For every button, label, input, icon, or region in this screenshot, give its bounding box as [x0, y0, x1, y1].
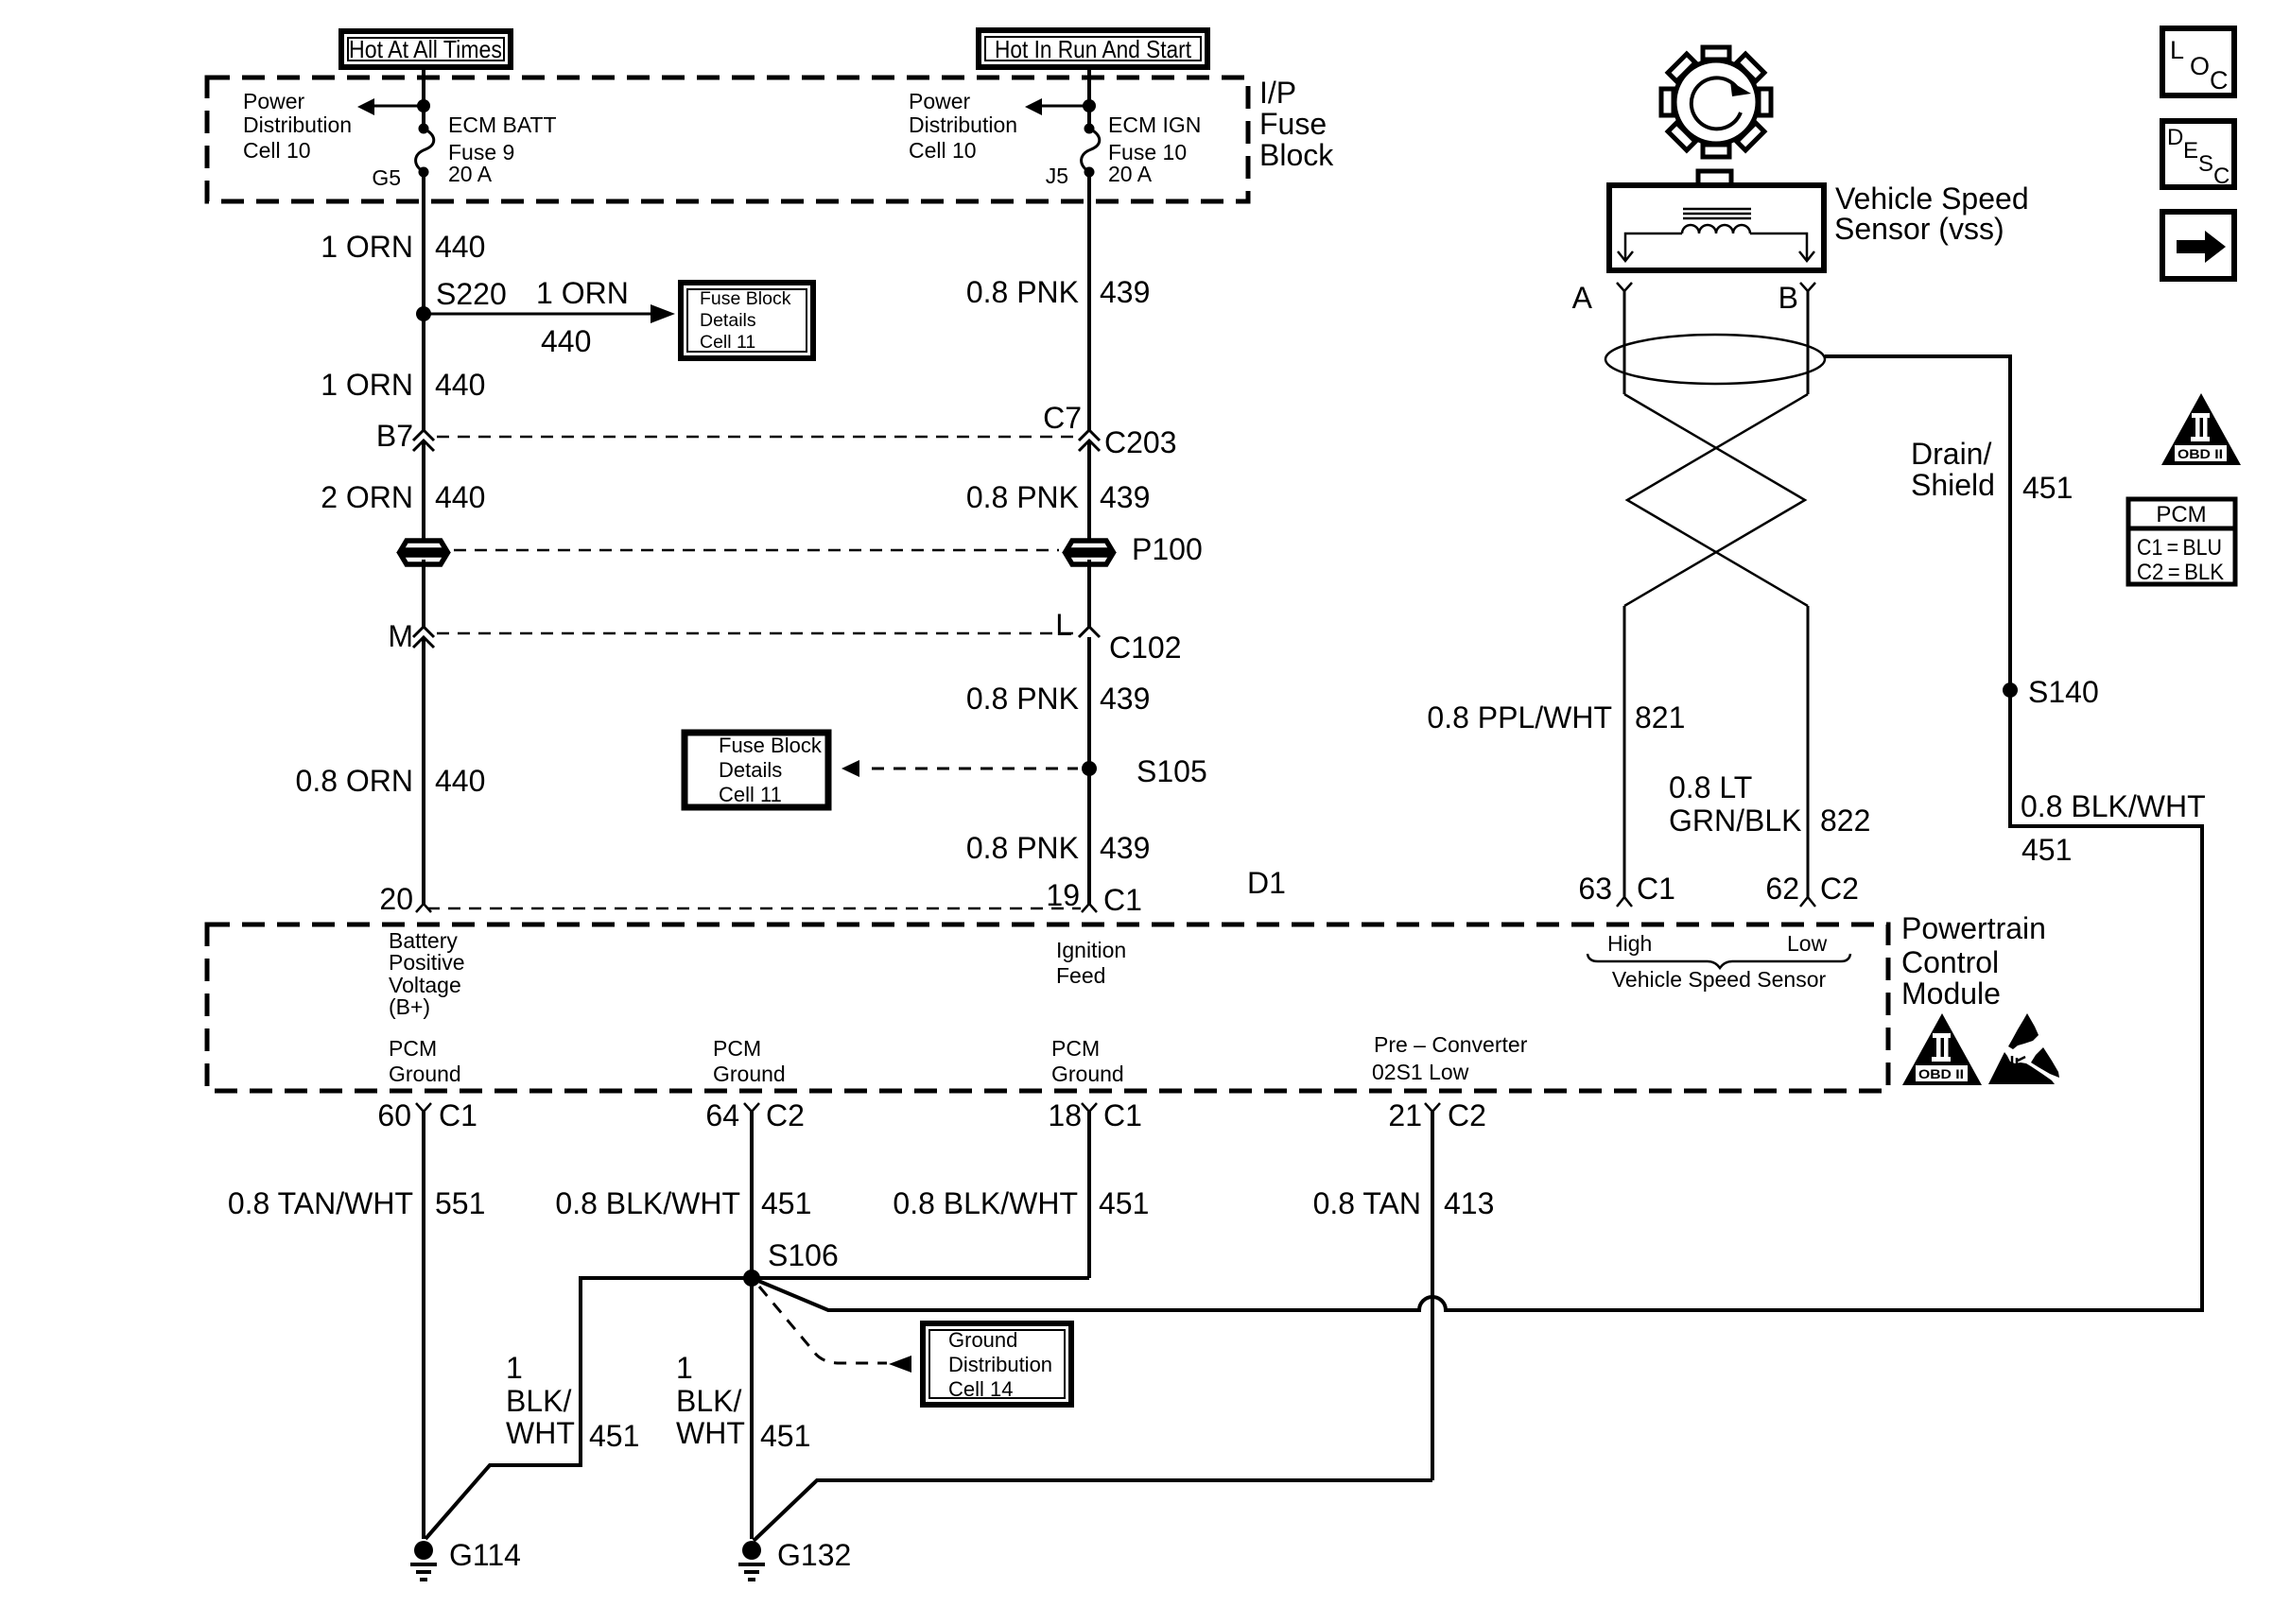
- splice S106: [743, 1270, 760, 1287]
- svg-text:C2 = BLK: C2 = BLK: [2137, 560, 2224, 585]
- svg-text:Distribution: Distribution: [243, 112, 352, 137]
- svg-text:Low: Low: [1787, 931, 1828, 956]
- text ECM IGN Fuse 10 20 A: [1108, 112, 1201, 186]
- svg-text:L: L: [1055, 608, 1072, 642]
- detail box Fuse Block Details Cell 11 (near S105): [685, 733, 828, 807]
- label box "Hot At All Times": [341, 31, 511, 67]
- label 0.8 TAN/WHT 551: [228, 1186, 486, 1220]
- svg-text:(B+): (B+): [389, 994, 430, 1019]
- wire TAN 413 turn to G132: [754, 1480, 1432, 1541]
- svg-text:0.8 BLK/WHT: 0.8 BLK/WHT: [893, 1186, 1078, 1220]
- wire pin 64 through S106 to ground G132: [750, 1112, 754, 1539]
- VSS interior wires with down arrows: [1618, 233, 1814, 261]
- text PCM Ground (2): [713, 1036, 786, 1086]
- connector arrow below B7: [413, 441, 434, 544]
- svg-text:451: 451: [2022, 471, 2073, 505]
- svg-text:Cell 10: Cell 10: [243, 138, 311, 163]
- svg-text:18: 18: [1048, 1098, 1082, 1132]
- svg-text:60: 60: [377, 1098, 411, 1132]
- svg-text:S220: S220: [436, 277, 507, 311]
- svg-text:C1: C1: [1103, 1098, 1142, 1132]
- detail box Ground Distribution Cell 14: [923, 1323, 1071, 1405]
- svg-text:S: S: [2198, 151, 2213, 177]
- svg-text:BLK/: BLK/: [676, 1384, 741, 1418]
- wire pin 18 down to S106 level: [1087, 1112, 1091, 1278]
- junction dot right power distribution: [1083, 99, 1096, 112]
- splice S105: [1082, 761, 1097, 776]
- svg-text:Ground: Ground: [713, 1062, 786, 1086]
- svg-text:Pre – Converter: Pre – Converter: [1374, 1032, 1528, 1057]
- I/P fuse block dashed box: [207, 78, 1248, 201]
- pin 63 C1 fork: [1578, 872, 1675, 907]
- svg-text:Ground: Ground: [389, 1062, 461, 1086]
- svg-text:62: 62: [1765, 872, 1799, 906]
- icon box forward arrow: [2162, 212, 2234, 279]
- VSS coil: [1682, 225, 1750, 233]
- svg-text:440: 440: [435, 368, 485, 402]
- wire S106 diagonal branch to drain shield (with hop over TAN wire): [752, 356, 2202, 1310]
- label 0.8 BLK/WHT 451 (left): [555, 1186, 811, 1220]
- svg-text:64: 64: [705, 1098, 739, 1132]
- wire pin 21 down (0.8 TAN 413): [1431, 1112, 1434, 1480]
- text PCM Ground (3): [1051, 1036, 1124, 1086]
- svg-text:451: 451: [589, 1419, 639, 1453]
- svg-text:Sensor (vss): Sensor (vss): [1834, 212, 2004, 246]
- wire from Hot At All Times into fuse G5: [422, 67, 425, 129]
- label 0.8 TAN 413: [1313, 1186, 1495, 1220]
- svg-text:1 ORN: 1 ORN: [321, 230, 413, 264]
- svg-text:0.8 PNK: 0.8 PNK: [966, 682, 1079, 716]
- svg-text:WHT: WHT: [676, 1416, 745, 1450]
- pin 21 C2: [1388, 1098, 1486, 1132]
- svg-text:J5: J5: [1046, 164, 1068, 188]
- svg-text:C: C: [2213, 164, 2230, 189]
- svg-text:C: C: [2210, 66, 2229, 95]
- svg-text:S106: S106: [768, 1238, 839, 1272]
- label Powertrain Control Module: [1901, 911, 2046, 1011]
- wire from pin 18 to splice S106: [752, 1276, 1089, 1280]
- svg-text:451: 451: [2021, 833, 2072, 867]
- svg-text:0.8 PNK: 0.8 PNK: [966, 275, 1079, 309]
- PCM dashed box: [207, 924, 1888, 1091]
- svg-text:D1: D1: [1247, 866, 1286, 900]
- wire VSS A to pin 63: [1623, 606, 1626, 897]
- text Battery Positive Voltage (B+): [389, 928, 465, 1019]
- PCM connector legend box: [2128, 499, 2235, 585]
- svg-text:Distribution: Distribution: [948, 1353, 1052, 1376]
- svg-text:821: 821: [1635, 700, 1685, 734]
- label 0.8 PPL/WHT 821: [1427, 700, 1685, 734]
- svg-text:G132: G132: [777, 1538, 851, 1572]
- svg-text:Ground: Ground: [948, 1328, 1017, 1352]
- text Ignition Feed: [1056, 938, 1126, 988]
- wire pin 60 to ground G114: [422, 1112, 425, 1539]
- svg-text:C203: C203: [1104, 425, 1177, 459]
- svg-text:PCM: PCM: [2156, 502, 2206, 527]
- pin 60 C1: [377, 1098, 477, 1132]
- svg-text:E: E: [2183, 138, 2198, 164]
- svg-text:440: 440: [435, 480, 485, 514]
- svg-text:Cell 11: Cell 11: [700, 332, 755, 353]
- svg-text:0.8 PNK: 0.8 PNK: [966, 831, 1079, 865]
- wire L to S105 to pin 19: [1087, 637, 1091, 905]
- svg-text:High: High: [1607, 931, 1652, 956]
- connector arrow below C7: [1079, 441, 1100, 544]
- svg-text:Vehicle Speed Sensor: Vehicle Speed Sensor: [1612, 967, 1827, 992]
- label 0.8 ORN 440: [296, 764, 486, 798]
- connector dashed line M to L: [437, 632, 1078, 635]
- svg-text:Positive: Positive: [389, 950, 465, 975]
- wire fuse G5 down out of fuse box: [422, 172, 425, 312]
- svg-text:439: 439: [1100, 480, 1150, 514]
- svg-text:O: O: [2190, 52, 2210, 80]
- label 2 ORN 440: [321, 480, 485, 514]
- svg-text:451: 451: [1099, 1186, 1149, 1220]
- svg-text:440: 440: [541, 324, 591, 358]
- brace under High/Low: [1588, 954, 1850, 968]
- svg-text:C2: C2: [1448, 1098, 1486, 1132]
- detail box Fuse Block Details Cell 11 (top): [681, 283, 813, 358]
- svg-text:Drain/: Drain/: [1911, 437, 1991, 471]
- svg-text:2 ORN: 2 ORN: [321, 480, 413, 514]
- label 1 BLK/WHT 451 (left branch): [506, 1351, 639, 1453]
- svg-text:WHT: WHT: [506, 1416, 575, 1450]
- wire VSS B to pin 62: [1807, 606, 1810, 897]
- ground G132: [738, 1541, 765, 1580]
- svg-text:02S1 Low: 02S1 Low: [1372, 1060, 1469, 1084]
- svg-text:0.8 BLK/WHT: 0.8 BLK/WHT: [555, 1186, 740, 1220]
- svg-text:Hot In Run And Start: Hot In Run And Start: [995, 35, 1192, 63]
- svg-text:C7: C7: [1043, 401, 1082, 435]
- svg-text:C1: C1: [1103, 883, 1142, 917]
- label 1 ORN 440 (second): [321, 368, 485, 402]
- shield ellipse: [1605, 335, 1825, 384]
- svg-text:20 A: 20 A: [448, 162, 493, 186]
- connector dashed line P100: [454, 549, 1059, 552]
- svg-text:PCM: PCM: [1051, 1036, 1100, 1061]
- svg-text:1: 1: [676, 1351, 693, 1385]
- svg-text:B: B: [1778, 281, 1798, 315]
- svg-text:Module: Module: [1901, 976, 2001, 1011]
- svg-text:451: 451: [761, 1186, 811, 1220]
- svg-text:Cell 14: Cell 14: [948, 1377, 1013, 1401]
- svg-text:Fuse Block: Fuse Block: [700, 288, 791, 309]
- OBD II triangle inside PCM: [1902, 1013, 1982, 1085]
- svg-text:G114: G114: [449, 1538, 521, 1572]
- svg-text:Block: Block: [1259, 138, 1334, 172]
- svg-text:20 A: 20 A: [1108, 162, 1153, 186]
- svg-text:Fuse: Fuse: [1259, 107, 1327, 141]
- text Pre-Converter 02S1 Low: [1372, 1032, 1528, 1084]
- svg-text:1 ORN: 1 ORN: [321, 368, 413, 402]
- svg-text:M: M: [388, 619, 413, 653]
- wire from Hot In Run And Start into fuse J5: [1087, 67, 1091, 129]
- svg-text:OBD II: OBD II: [1918, 1066, 1964, 1081]
- VSS core lines: [1683, 209, 1751, 218]
- wire S220 to connector B7: [422, 314, 425, 431]
- VSS sensor box: [1609, 171, 1824, 270]
- label 1 BLK/WHT 451 (G132 wire): [676, 1351, 810, 1453]
- twisted pair crossing: [1624, 394, 1808, 606]
- svg-text:Cell 11: Cell 11: [719, 783, 782, 806]
- svg-text:0.8 ORN: 0.8 ORN: [296, 764, 413, 798]
- pin 62 C2 fork: [1765, 872, 1859, 907]
- svg-text:1: 1: [506, 1351, 523, 1385]
- wire PNK fuse J5 to C7: [1087, 172, 1091, 431]
- splice S220: [416, 306, 431, 321]
- dashed arrow S106 to Ground Distribution: [759, 1287, 911, 1373]
- svg-text:0.8 LT: 0.8 LT: [1669, 770, 1752, 804]
- splice S140: [2003, 682, 2018, 698]
- svg-text:Hot At All Times: Hot At All Times: [349, 35, 502, 63]
- svg-text:440: 440: [435, 764, 485, 798]
- svg-text:63: 63: [1578, 872, 1612, 906]
- svg-text:GRN/BLK: GRN/BLK: [1669, 803, 1801, 838]
- svg-text:439: 439: [1100, 682, 1150, 716]
- svg-text:Ground: Ground: [1051, 1062, 1124, 1086]
- svg-text:1 ORN: 1 ORN: [536, 276, 629, 310]
- svg-text:Fuse Block: Fuse Block: [719, 734, 823, 757]
- svg-text:551: 551: [435, 1186, 485, 1220]
- icon box LOC: [2162, 28, 2234, 95]
- reluctor gear icon: [1639, 25, 1794, 180]
- icon box DESC: [2162, 121, 2234, 189]
- arrow to Power Distribution (left): [357, 98, 424, 115]
- connector half M (chevron): [413, 627, 434, 637]
- svg-text:P100: P100: [1132, 532, 1203, 566]
- svg-text:C2: C2: [1820, 872, 1859, 906]
- svg-text:0.8 TAN/WHT: 0.8 TAN/WHT: [228, 1186, 413, 1220]
- connector half B7 (chevron): [413, 430, 434, 441]
- connector arrow below M: [413, 637, 434, 905]
- pin A connector: [1572, 281, 1632, 394]
- wire S106 left branch to G114: [425, 1278, 752, 1539]
- svg-text:PCM: PCM: [389, 1036, 437, 1061]
- svg-text:440: 440: [435, 230, 485, 264]
- arrow S220 to Fuse Block Details: [424, 304, 675, 323]
- text PCM Ground (1): [389, 1036, 461, 1086]
- label 0.8 PNK 439 (third): [966, 682, 1151, 716]
- label Vehicle Speed Sensor (vss): [1834, 181, 2029, 246]
- svg-text:G5: G5: [372, 165, 401, 190]
- svg-text:0.8 PNK: 0.8 PNK: [966, 480, 1079, 514]
- svg-text:B7: B7: [376, 419, 413, 453]
- wire right P100 to L: [1087, 560, 1091, 628]
- fuse F9 (ECM BATT): [416, 124, 434, 178]
- svg-text:Power: Power: [909, 89, 971, 113]
- svg-text:Shield: Shield: [1911, 468, 1995, 502]
- junction dot left power distribution: [417, 99, 430, 112]
- connector half C7 (chevron): [1079, 430, 1100, 441]
- svg-text:ECM BATT: ECM BATT: [448, 112, 557, 137]
- text ECM BATT Fuse 9 20 A: [448, 112, 557, 186]
- label 0.8 PNK 439 (second): [966, 480, 1151, 514]
- svg-text:439: 439: [1100, 831, 1150, 865]
- svg-text:L: L: [2170, 36, 2184, 64]
- svg-text:I/P: I/P: [1259, 76, 1296, 110]
- pin 64 C2: [705, 1098, 805, 1132]
- svg-text:OBD II: OBD II: [2178, 446, 2223, 461]
- svg-text:Ignition: Ignition: [1056, 938, 1126, 962]
- label 0.8 BLK/WHT 451 (drain): [2021, 789, 2206, 867]
- OBD II triangle (right column): [2161, 393, 2241, 465]
- grommet P100 (right): [1067, 541, 1112, 564]
- fuse F10 (ECM IGN): [1082, 124, 1100, 178]
- dashed arrow S105 to fuse block details: [842, 760, 1078, 777]
- label Drain/Shield 451: [1911, 437, 2073, 505]
- svg-text:PCM: PCM: [713, 1036, 761, 1061]
- svg-text:0.8 TAN: 0.8 TAN: [1313, 1186, 1421, 1220]
- text Power Distribution Cell 10 (right): [909, 89, 1017, 163]
- wire 1 ORN from fuse to S220: [422, 172, 425, 314]
- svg-text:Powertrain: Powertrain: [1901, 911, 2046, 945]
- svg-text:A: A: [1572, 281, 1593, 315]
- svg-text:20: 20: [379, 882, 413, 916]
- svg-text:822: 822: [1820, 803, 1870, 838]
- svg-text:Distribution: Distribution: [909, 112, 1017, 137]
- grommet P100 (left): [401, 541, 446, 564]
- svg-text:Details: Details: [700, 310, 756, 331]
- pin 19 fork at PCM C1: [1046, 878, 1142, 917]
- pin 18 C1: [1048, 1098, 1142, 1132]
- svg-text:0.8 BLK/WHT: 0.8 BLK/WHT: [2021, 789, 2206, 823]
- svg-text:D: D: [2167, 125, 2183, 150]
- svg-text:ECM IGN: ECM IGN: [1108, 112, 1201, 137]
- label 0.8 BLK/WHT 451 (middle): [893, 1186, 1149, 1220]
- svg-text:Cell 10: Cell 10: [909, 138, 977, 163]
- thin dashed line pin20 to pin19: [427, 907, 1081, 910]
- svg-text:Vehicle Speed: Vehicle Speed: [1835, 181, 2029, 216]
- svg-text:S105: S105: [1136, 754, 1207, 788]
- label 0.8 PNK 439 (fourth): [966, 831, 1151, 865]
- svg-text:Control: Control: [1901, 945, 1999, 979]
- svg-text:Power: Power: [243, 89, 305, 113]
- svg-text:19: 19: [1046, 878, 1080, 912]
- pin 20 fork at PCM C1: [379, 882, 431, 916]
- connector half L (chevron): [1079, 627, 1100, 637]
- arrow to Power Distribution (right): [1025, 98, 1089, 115]
- svg-text:C2: C2: [766, 1098, 805, 1132]
- svg-text:C1 = BLU: C1 = BLU: [2137, 535, 2222, 561]
- ground G114: [410, 1541, 437, 1580]
- connector dashed line B7 to C7: [437, 436, 1078, 439]
- svg-text:413: 413: [1444, 1186, 1494, 1220]
- label 1 ORN 440 (first): [321, 230, 485, 264]
- svg-text:Details: Details: [719, 758, 782, 782]
- svg-text:C1: C1: [1637, 872, 1675, 906]
- svg-text:0.8 PPL/WHT: 0.8 PPL/WHT: [1427, 700, 1612, 734]
- svg-text:C102: C102: [1109, 631, 1182, 665]
- text Power Distribution Cell 10 (left): [243, 89, 352, 163]
- ESD triangle inside PCM: [1988, 1013, 2059, 1084]
- svg-text:Feed: Feed: [1056, 963, 1105, 988]
- svg-text:C1: C1: [439, 1098, 477, 1132]
- svg-text:BLK/: BLK/: [506, 1384, 571, 1418]
- svg-text:21: 21: [1388, 1098, 1422, 1132]
- label I/P Fuse Block: [1259, 76, 1334, 172]
- pin B connector: [1778, 281, 1815, 394]
- svg-text:S140: S140: [2028, 675, 2099, 709]
- svg-text:439: 439: [1100, 275, 1150, 309]
- label box "Hot In Run And Start": [979, 30, 1207, 67]
- wire left P100 to M: [422, 560, 425, 628]
- label 1 ORN 440 on S220 arrow: [536, 276, 629, 358]
- svg-text:451: 451: [760, 1419, 810, 1453]
- label 0.8 PNK 439 (first): [966, 275, 1151, 309]
- label 0.8 LT GRN/BLK 822: [1669, 770, 1870, 838]
